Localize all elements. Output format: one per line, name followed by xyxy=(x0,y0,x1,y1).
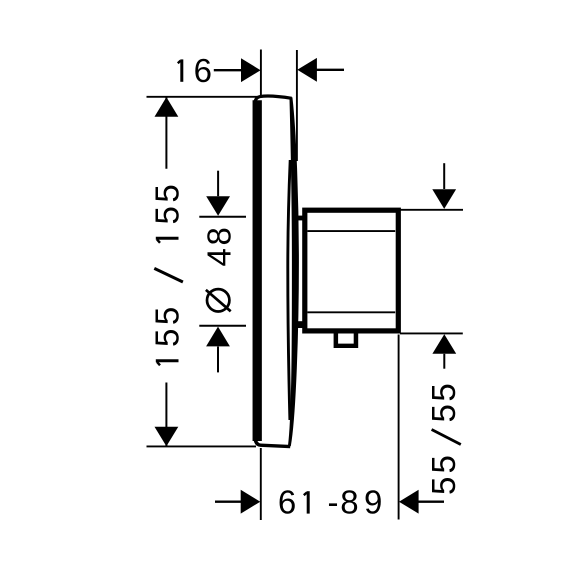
svg-text:55: 55 xyxy=(425,452,462,495)
dim 16: label digit 1 (manual, no foot serif) xyxy=(180,59,183,81)
dim 61-89: left arrow xyxy=(241,490,261,514)
dim 155/155: label slash xyxy=(154,268,183,282)
handle body xyxy=(305,210,399,331)
dim 55/55: bottom arrow tail xyxy=(443,354,445,369)
dim 16: right extension line xyxy=(296,50,298,161)
svg-text:6: 6 xyxy=(278,484,296,521)
dim 55/55: top arrow xyxy=(432,189,456,209)
dim 55/55: top extension line xyxy=(398,209,463,211)
dim 55/55: bottom arrow xyxy=(432,334,456,354)
dim 61-89: right arrow xyxy=(399,490,419,514)
dim 61-89: right tail xyxy=(416,501,444,503)
dim 155/155: bottom arrow xyxy=(155,427,179,447)
dim 155/155: top arrow xyxy=(155,97,179,117)
svg-text:-89: -89 xyxy=(328,484,385,521)
dim Ø48: top tick xyxy=(199,216,246,218)
handle collar stub top xyxy=(297,216,303,221)
svg-text:6: 6 xyxy=(194,52,212,89)
svg-text:55: 55 xyxy=(149,181,186,225)
dim Ø48: label diameter symbol xyxy=(207,289,229,311)
dim 55/55: label slash xyxy=(432,430,461,445)
dim Ø48: top arrow xyxy=(206,196,230,216)
dim 61-89: left tail xyxy=(215,501,243,503)
handle bottom tab xyxy=(334,331,359,348)
dim Ø48: bottom arrow tail xyxy=(217,347,219,373)
dim 155/155: label part "155" upper: manual 1 then 55 xyxy=(156,237,179,240)
dim 155/155: dimension line top segment xyxy=(165,97,167,169)
dim 155/155: bottom extension line xyxy=(147,445,257,447)
plate front highlight line xyxy=(288,160,290,420)
escutcheon plate left (wall-side) edge xyxy=(253,100,262,441)
dim 55/55: top arrow tail xyxy=(443,163,445,189)
escutcheon plate front (right) edge xyxy=(289,98,299,445)
dim 61-89: left extension line xyxy=(260,448,262,520)
handle inner line top xyxy=(308,230,396,232)
dim 155/155: label part "155" lower: manual 1 then 55 xyxy=(156,359,179,362)
dim Ø48: bottom tick xyxy=(199,325,246,327)
dim 16: right tail xyxy=(314,69,344,71)
escutcheon plate top edge xyxy=(255,96,292,103)
dim 16: right arrow xyxy=(297,58,317,82)
handle collar stub bottom xyxy=(297,321,303,328)
dim 55/55: bottom extension line xyxy=(400,332,463,334)
svg-text:48: 48 xyxy=(201,224,238,266)
dim 16: left extension line xyxy=(260,50,262,96)
dim Ø48: top arrow tail xyxy=(217,171,219,197)
dim 155/155: top extension line xyxy=(147,96,260,98)
svg-text:55: 55 xyxy=(149,303,186,347)
dim 155/155: dimension line bottom segment xyxy=(165,383,167,447)
svg-text:55: 55 xyxy=(425,381,462,423)
dim 16: left arrow xyxy=(241,58,261,82)
handle inner line bottom xyxy=(308,311,396,313)
dim 61-89: label digit 1 (manual) xyxy=(307,491,310,513)
dim 16: left dimension line xyxy=(214,69,243,71)
dim Ø48: bottom arrow xyxy=(206,327,230,347)
escutcheon plate bottom edge xyxy=(255,437,290,447)
dim 61-89: right extension line xyxy=(398,335,400,520)
